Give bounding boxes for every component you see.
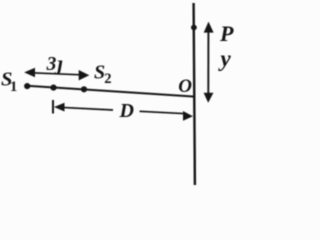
y arrowhead up [204, 22, 214, 33]
D dimension shaft left segment [57, 107, 113, 110]
slit dot S2 [81, 86, 87, 92]
3l double arrow shaft [32, 73, 81, 75]
slit dot S1 [24, 83, 30, 89]
y arrowhead down [204, 93, 214, 103]
D dimension end bar [52, 100, 54, 114]
svg-text:3: 3 [46, 54, 57, 75]
svg-text:1: 1 [10, 79, 18, 95]
svg-text:O: O [178, 76, 192, 97]
axis line from slits to screen [27, 86, 195, 97]
svg-text:2: 2 [104, 71, 111, 87]
svg-text:P: P [219, 21, 234, 46]
D dimension shaft right segment [140, 111, 187, 113]
svg-text:D: D [119, 100, 134, 122]
center dot [50, 85, 56, 91]
3l arrowhead right [79, 70, 90, 80]
y double arrow shaft [207, 28, 209, 96]
3l arrowhead left [24, 68, 35, 78]
D dimension arrowhead left [54, 103, 65, 112]
svg-text:y: y [218, 46, 232, 71]
D dimension arrowhead right [183, 111, 193, 121]
point P dot on screen [191, 25, 197, 31]
screen (vertical line) [194, 3, 195, 185]
